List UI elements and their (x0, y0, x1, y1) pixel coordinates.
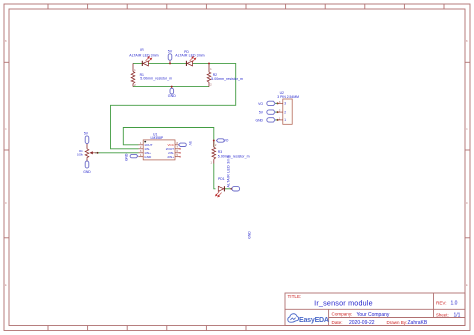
svg-text:D: D (5, 202, 7, 205)
net label GND (floating, vertical) (248, 231, 252, 239)
svg-text:5V: 5V (84, 131, 89, 135)
ground flag GND (top loop) (168, 88, 176, 98)
potentiometer R4 (77, 131, 96, 174)
junction at R4 wiper (97, 152, 99, 154)
svg-text:1.0: 1.0 (451, 301, 458, 307)
wire: bottom rail GND of LED loop (133, 86, 209, 88)
wire: R4 wiper to 1IN+ (95, 152, 139, 154)
svg-text:5V: 5V (168, 49, 173, 53)
net flag GND at U2 pin1 (255, 118, 277, 123)
svg-text:VCC: VCC (167, 143, 174, 147)
svg-text:Sheet:: Sheet: (436, 312, 449, 317)
svg-text:ALTAIR LED 3mm: ALTAIR LED 3mm (175, 53, 204, 57)
power flag 5V (top) (168, 49, 173, 60)
svg-text:TITLE:: TITLE: (288, 294, 302, 299)
svg-text:GND: GND (248, 231, 252, 239)
svg-text:VO: VO (258, 102, 263, 106)
wire: R4 top/bottom stubs (86, 144, 88, 162)
svg-text:GND: GND (168, 94, 176, 98)
svg-text:1: 1 (284, 118, 286, 122)
svg-text:2IN+: 2IN+ (167, 155, 174, 159)
svg-text:Your Company: Your Company (357, 312, 390, 318)
svg-text:C: C (466, 128, 468, 131)
resistor R1 (131, 69, 172, 87)
svg-text:ZahraKB: ZahraKB (408, 320, 428, 326)
junction at R2 top (208, 62, 210, 64)
svg-text:GND: GND (255, 118, 263, 122)
svg-text:Ir_sensor module: Ir_sensor module (314, 299, 373, 308)
junction at R3 top node (213, 140, 215, 142)
net flag GND at PD1 cathode (231, 187, 240, 191)
svg-text:EasyEDA: EasyEDA (299, 316, 329, 324)
svg-text:5.00mm_resistor_m: 5.00mm_resistor_m (218, 154, 250, 158)
svg-text:GND: GND (144, 155, 152, 159)
wire: GND flag stub (171, 87, 173, 89)
net flag 5V at U2 pin2 (259, 110, 278, 115)
svg-text:5V: 5V (259, 111, 264, 115)
wire: PD1 cathode to GND flag (225, 188, 232, 190)
title block (285, 293, 465, 326)
svg-text:Drawn By:: Drawn By: (387, 320, 408, 325)
svg-text:LM358P: LM358P (151, 136, 164, 140)
wire: feedback 1OUT to R3 (123, 128, 214, 148)
svg-text:ALTAIR LED 3mm: ALTAIR LED 3mm (227, 155, 231, 187)
net flag VO at U2 pin3 (258, 101, 277, 106)
svg-text:ALTAIR LED 3mm: ALTAIR LED 3mm (129, 53, 158, 57)
resistor R3 (211, 142, 250, 165)
svg-text:1/1: 1/1 (454, 312, 461, 318)
svg-text:2020-09-22: 2020-09-22 (349, 320, 375, 326)
op-amp U1 LM358P (139, 132, 181, 160)
svg-text:GND: GND (83, 170, 91, 174)
junction at GND tap (171, 86, 173, 88)
wire: R2 column stubs (pins) (208, 63, 210, 86)
wire: R1 column stubs (pins) (132, 63, 134, 86)
LED PD (with labels) (175, 50, 204, 66)
resistor R2 (207, 68, 243, 86)
svg-text:3: 3 (284, 102, 286, 106)
connector U2 3 PIN 2.54MM (277, 91, 300, 124)
svg-text:100k: 100k (77, 152, 83, 156)
svg-text:PD1: PD1 (218, 177, 225, 181)
junction at 5V tap (169, 62, 171, 64)
net flag 5V at U1 VCC pin (179, 141, 192, 146)
photodiode PD1 ALTAIR LED 3mm (215, 155, 230, 197)
svg-text:5.00mm_resistor_m: 5.00mm_resistor_m (140, 77, 172, 81)
svg-text:Company:: Company: (332, 312, 353, 317)
svg-text:Date:: Date: (332, 320, 343, 325)
svg-text:C: C (5, 128, 7, 131)
svg-text:3 PIN 2.54MM: 3 PIN 2.54MM (277, 95, 299, 99)
wire: top rail 5V net (111, 63, 236, 148)
net flag GND at U1 GND pin (125, 153, 138, 161)
svg-text:IR: IR (140, 48, 144, 52)
svg-text:GND: GND (125, 153, 129, 161)
svg-text:REV:: REV: (436, 301, 447, 306)
svg-text:VO: VO (224, 139, 229, 143)
wire: R3 bottom to PD1 (214, 164, 216, 189)
net flag VO at R3 top node (216, 139, 229, 143)
svg-text:2: 2 (284, 110, 286, 114)
LED IR (with labels) (129, 48, 158, 66)
svg-text:D: D (466, 202, 468, 205)
EasyEDA logo (288, 314, 329, 324)
wire: 5V flag stub (169, 60, 171, 63)
svg-text:5.00mm_resistor_m: 5.00mm_resistor_m (211, 77, 243, 81)
